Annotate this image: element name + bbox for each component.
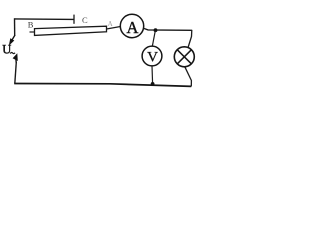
wire junction down to voltmeter: [152, 31, 155, 47]
rheostat slider contact C (vertical tap): [73, 15, 75, 24]
lamp L (circle with X): [174, 47, 194, 67]
wire top-right corner down toward lamp: [188, 30, 192, 47]
svg-text:V: V: [147, 50, 158, 66]
rheostat R body (slide rheostat box): [35, 26, 107, 35]
wire left vertical upper segment: [14, 18, 16, 36]
svg-text:A: A: [108, 20, 113, 28]
svg-text:B: B: [28, 20, 34, 30]
arrow to AC source (lower lead): [13, 53, 18, 63]
junction node (top, voltmeter tap): [154, 28, 158, 32]
wire rheostat right end to ammeter: [107, 27, 121, 30]
wire bottom horizontal: [14, 84, 191, 87]
svg-text:U: U: [2, 43, 11, 57]
arrow to AC source (upper lead): [9, 35, 15, 46]
wire lamp bottom to bottom-right corner: [185, 67, 191, 86]
wire left vertical lower segment: [15, 62, 16, 84]
wire voltmeter bottom to bottom junction: [151, 66, 154, 84]
ammeter A1 (circle): [120, 14, 143, 37]
svg-text:C: C: [82, 15, 88, 25]
label U~ (AC supply): [2, 43, 15, 57]
rheostat left terminal stub: [30, 31, 35, 33]
svg-text:A: A: [126, 18, 138, 37]
wire top horizontal from left corner to slider: [15, 18, 75, 21]
junction node (bottom, voltmeter return): [151, 82, 155, 86]
voltmeter V (circle): [142, 46, 162, 66]
wire ammeter to top-right corner: [144, 28, 192, 30]
